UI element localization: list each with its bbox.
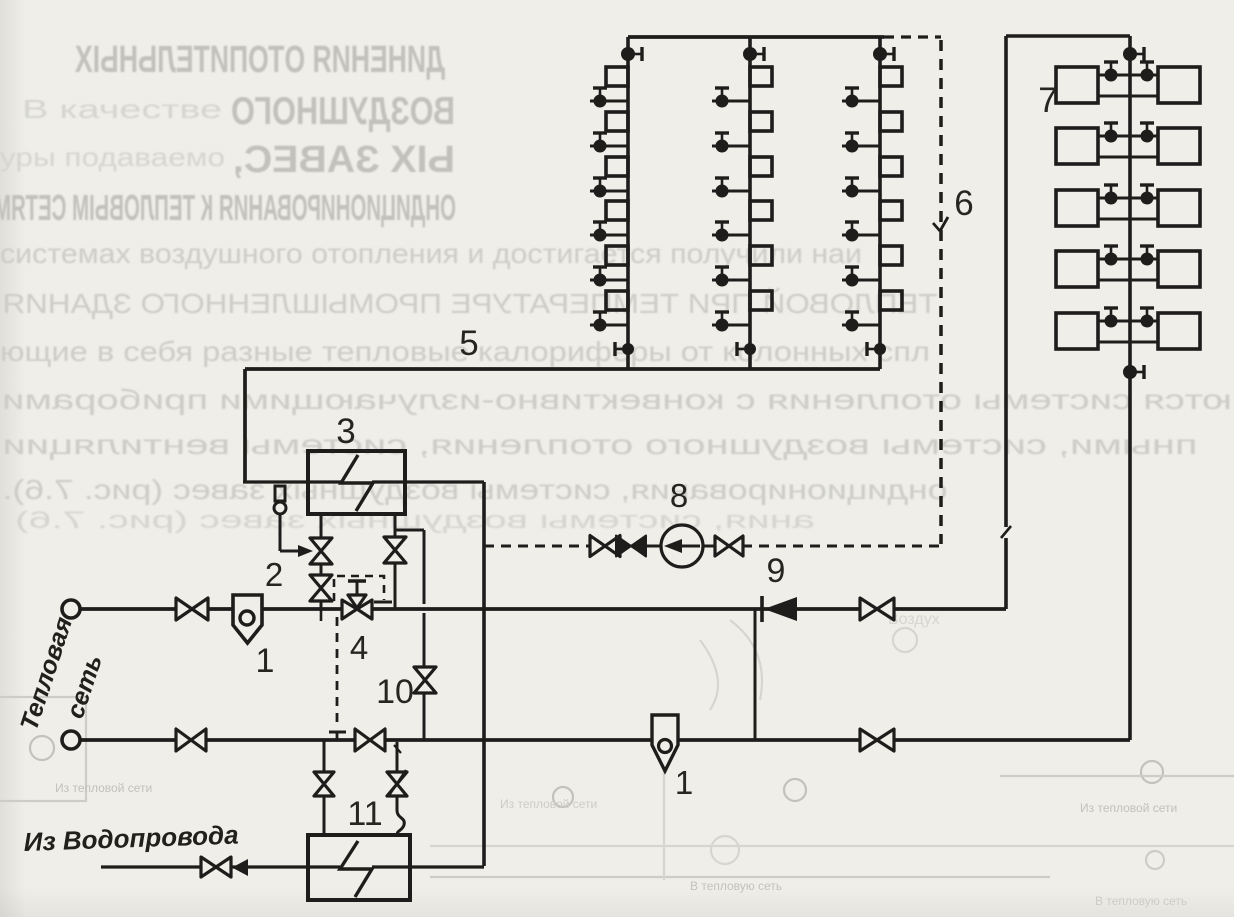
wire: exchanger 3 left tube to valve 2 xyxy=(320,514,323,609)
right conn valve floor5 xyxy=(1140,308,1154,328)
actuator dashed box xyxy=(334,576,392,602)
valve 10 xyxy=(414,667,436,693)
return conn floor5 xyxy=(1098,341,1158,344)
radiator riser2 floor6 xyxy=(750,291,772,310)
supply conn floor5 xyxy=(1098,320,1158,323)
radiator valve riser2 floor3 xyxy=(712,178,750,198)
wire: bypass supply-return xyxy=(754,609,757,740)
label 1 (return filter) xyxy=(675,764,693,801)
label 3 xyxy=(336,412,355,451)
wire: bottom header of left bank xyxy=(245,367,880,371)
radiator left floor3 of bank 7 xyxy=(1056,190,1098,226)
svg-text:ТЕПЛОВОЙ ПРИ ТЕМПЕРАТУРЕ ПРОМЫ: ТЕПЛОВОЙ ПРИ ТЕМПЕРАТУРЕ ПРОМЫШЛЕННОГО З… xyxy=(3,288,938,319)
label 7 xyxy=(1038,81,1057,120)
wire: cold water inlet xyxy=(101,865,340,868)
svg-text:системах воздушного отопления: системах воздушного отопления и достигае… xyxy=(0,238,862,269)
svg-text:3: 3 xyxy=(336,412,355,451)
radiator valve riser2 floor1 xyxy=(712,88,750,108)
radiator right floor4 of bank 7 xyxy=(1158,251,1200,287)
radiator right floor2 of bank 7 xyxy=(1158,128,1200,164)
flow arrow on dashed riser 6 xyxy=(933,217,948,231)
radiator valve riser3 floor2 xyxy=(842,133,880,153)
radiator valve riser3 floor1 xyxy=(842,88,880,108)
svg-text:6: 6 xyxy=(954,184,973,223)
right conn valve floor1 xyxy=(1140,62,1154,82)
svg-text:В тепловую сеть: В тепловую сеть xyxy=(690,879,782,893)
supply conn floor1 xyxy=(1098,74,1158,77)
stub below supply at valve2 line xyxy=(320,609,323,621)
heat exchanger 11 xyxy=(308,835,410,900)
label 2 xyxy=(265,556,283,593)
radiator riser2 floor3 xyxy=(750,157,772,176)
valve below 2 xyxy=(310,575,332,601)
supply conn floor3 xyxy=(1098,197,1158,200)
svg-text:ЫХ ЗАВЕС,: ЫХ ЗАВЕС, xyxy=(233,139,455,181)
wire: exchanger 3 outlet to drop xyxy=(372,480,484,483)
radiator valve riser2 floor4 xyxy=(712,222,750,242)
mud filter 1 (return) xyxy=(652,715,678,771)
valve on left feed xyxy=(314,772,334,796)
radiator riser2 floor5 xyxy=(750,246,772,265)
label 8 xyxy=(670,477,688,514)
left conn valve floor3 xyxy=(1104,185,1118,205)
svg-text:ондиционирования, системы возд: ондиционирования, системы воздушных заве… xyxy=(2,474,947,505)
wire: supply riser to bank 7 xyxy=(1001,36,1011,609)
return conn floor1 xyxy=(1098,95,1158,98)
label 4 xyxy=(350,629,368,666)
svg-text:9: 9 xyxy=(767,552,786,590)
wire: branch to valve 10 xyxy=(395,530,424,740)
riser 1 bottom tap xyxy=(615,342,634,356)
valve 4 actuator xyxy=(348,581,366,595)
svg-text:уры подаваемо: уры подаваемо xyxy=(0,142,225,172)
bleed-through diagram fragments (bottom band) xyxy=(0,620,1234,880)
svg-text:ДИНЕНИЯ ОТОПИТЕЛЬНЫХ: ДИНЕНИЯ ОТОПИТЕЛЬНЫХ xyxy=(75,39,445,81)
check valve 9 xyxy=(762,596,797,622)
dashed impulse line to return xyxy=(329,617,346,740)
wire: dashed pump suction xyxy=(484,545,590,548)
wire: heated water outlet xyxy=(372,865,484,868)
riser 3 of bank 5 xyxy=(878,37,882,369)
wire: exchanger 11 left feed xyxy=(323,740,326,835)
riser 3 top valve xyxy=(873,47,894,61)
radiator valve riser1 floor6 xyxy=(590,312,628,332)
svg-text:11: 11 xyxy=(347,795,382,833)
wire: riser of bank 7 xyxy=(1128,36,1132,740)
label 5 xyxy=(459,324,478,363)
label 1 (supply filter) xyxy=(256,642,275,680)
svg-text:5: 5 xyxy=(459,324,478,363)
radiator valve riser1 floor3 xyxy=(590,178,628,198)
valve after pump xyxy=(703,536,743,556)
wire: dashed header continuation to node 6 xyxy=(884,35,941,38)
valve on return after mixing point xyxy=(355,729,385,751)
bank 7 riser bottom valve xyxy=(1123,365,1144,379)
valve on return before bank 7 xyxy=(860,729,894,751)
wire: return main xyxy=(80,738,1130,742)
radiator valve riser1 floor4 xyxy=(590,222,628,242)
node: heat network supply stub xyxy=(62,600,80,618)
wire: top feed to bank 7 xyxy=(1006,34,1130,38)
mud filter 1 (supply) xyxy=(233,595,262,643)
riser 2 bottom tap xyxy=(737,342,756,356)
radiator riser1 floor2 xyxy=(606,112,628,131)
bleed-through body text lines xyxy=(0,238,1232,534)
bank 7 riser top valve xyxy=(1123,47,1144,61)
radiator riser1 floor6 xyxy=(606,291,628,310)
radiator valve riser1 floor1 xyxy=(590,88,628,108)
radiator riser3 floor2 xyxy=(880,112,902,131)
svg-text:10: 10 xyxy=(376,673,414,711)
valve on supply main xyxy=(176,598,208,620)
left conn valve floor4 xyxy=(1104,246,1118,266)
wire: curved drop into exchanger 11 xyxy=(397,796,404,835)
radiator riser3 floor5 xyxy=(880,246,902,265)
svg-text:8: 8 xyxy=(670,477,688,514)
radiator riser3 floor1 xyxy=(880,67,902,86)
radiator valve riser3 floor3 xyxy=(842,178,880,198)
label Из водопровода xyxy=(23,820,239,857)
left conn valve floor2 xyxy=(1104,123,1118,143)
svg-text:ются системы отопления с конве: ются системы отопления с конвективно-изл… xyxy=(2,384,1232,415)
return conn floor3 xyxy=(1098,218,1158,221)
radiator valve riser3 floor5 xyxy=(842,267,880,287)
svg-text:Из тепловой сети: Из тепловой сети xyxy=(1080,801,1177,815)
riser 2 top valve xyxy=(743,47,764,61)
wire: hot water drop pipe xyxy=(482,482,486,866)
svg-text:1: 1 xyxy=(675,764,693,801)
wire: supply main xyxy=(80,607,1006,611)
valve on supply before bank 7 xyxy=(860,598,894,620)
svg-text:ОНДИЦИОНИРОВАНИЯ К ТЕПЛОВЫМ СЕ: ОНДИЦИОНИРОВАНИЯ К ТЕПЛОВЫМ СЕТЯМ xyxy=(0,187,456,228)
return conn floor2 xyxy=(1098,156,1158,159)
radiator riser2 floor1 xyxy=(750,67,772,86)
radiator valve riser1 floor5 xyxy=(590,267,628,287)
svg-text:В тепловую сеть: В тепловую сеть xyxy=(1095,894,1187,908)
right conn valve floor3 xyxy=(1140,185,1154,205)
radiator riser1 floor1 xyxy=(606,67,628,86)
wire: dashed pump discharge to riser 6 xyxy=(742,545,941,548)
svg-text:ВОЗДУШНОГО: ВОЗДУШНОГО xyxy=(231,90,455,133)
radiator riser3 floor4 xyxy=(880,201,902,220)
radiator valve riser1 floor2 xyxy=(590,133,628,153)
wire: dashed return riser 6 xyxy=(939,40,943,544)
svg-text:Из тепловой сети: Из тепловой сети xyxy=(55,781,152,795)
riser 2 of bank 5 xyxy=(748,37,752,369)
valve on water inlet with flow arrow xyxy=(201,857,248,877)
radiator left floor4 of bank 7 xyxy=(1056,251,1098,287)
label 9 xyxy=(767,552,786,590)
svg-text:Воздух: Воздух xyxy=(888,611,940,628)
bleed-through mirrored heading from reverse page xyxy=(0,39,456,228)
supply conn floor2 xyxy=(1098,135,1158,138)
wire: left drop to heat exchanger 3 xyxy=(243,369,341,482)
heat exchanger 3 xyxy=(308,451,405,514)
radiator right floor5 of bank 7 xyxy=(1158,313,1200,349)
radiator left floor5 of bank 7 xyxy=(1056,313,1098,349)
valve on right tube xyxy=(384,537,406,563)
radiator valve riser2 floor6 xyxy=(712,312,750,332)
right conn valve floor4 xyxy=(1140,246,1154,266)
svg-text:1: 1 xyxy=(256,642,275,680)
svg-text:В качестве: В качестве xyxy=(22,94,222,124)
valve before pump (open) xyxy=(590,536,661,557)
wire: top supply header of left bank xyxy=(628,35,884,39)
riser 3 bottom tap xyxy=(867,342,886,356)
left conn valve floor5 xyxy=(1104,308,1118,328)
svg-text:2: 2 xyxy=(265,556,283,593)
temperature regulator sensor 2 xyxy=(274,486,313,557)
wire: exchanger 3 right tube xyxy=(394,514,397,609)
radiator left floor2 of bank 7 xyxy=(1056,128,1098,164)
pump 8 xyxy=(661,525,703,567)
radiator right floor3 of bank 7 xyxy=(1158,190,1200,226)
radiator right floor1 of bank 7 xyxy=(1158,67,1200,103)
radiator valve riser3 floor6 xyxy=(842,312,880,332)
svg-text:пными, системы воздушного отоп: пными, системы воздушного отопления, сис… xyxy=(3,429,1198,460)
supply conn floor4 xyxy=(1098,258,1158,261)
valve 2 (upper) xyxy=(310,538,332,564)
radiator valve riser2 floor5 xyxy=(712,267,750,287)
wire: exchanger 11 right feed xyxy=(394,742,401,772)
three-way mixing valve 4 xyxy=(342,595,372,619)
node: heat network return stub xyxy=(62,731,80,749)
radiator valve riser3 floor4 xyxy=(842,222,880,242)
radiator riser1 floor4 xyxy=(606,201,628,220)
valve on return main (left) xyxy=(176,729,206,751)
radiator riser3 floor3 xyxy=(880,157,902,176)
svg-text:Из тепловой сети: Из тепловой сети xyxy=(500,797,597,811)
radiator riser3 floor6 xyxy=(880,291,902,310)
radiator riser2 floor2 xyxy=(750,112,772,131)
radiator riser1 floor3 xyxy=(606,157,628,176)
left conn valve floor1 xyxy=(1104,62,1118,82)
radiator riser1 floor5 xyxy=(606,246,628,265)
return conn floor4 xyxy=(1098,279,1158,282)
svg-text:4: 4 xyxy=(350,629,368,666)
radiator riser2 floor4 xyxy=(750,201,772,220)
radiator valve riser2 floor2 xyxy=(712,133,750,153)
label Тепловая сеть xyxy=(15,613,108,734)
radiator left floor1 of bank 7 xyxy=(1056,67,1098,103)
check valve before pump (filled) xyxy=(616,536,646,557)
riser 1 of bank 5 xyxy=(626,37,630,369)
svg-text:7: 7 xyxy=(1038,81,1057,120)
right conn valve floor2 xyxy=(1140,123,1154,143)
label 11 xyxy=(347,795,382,833)
label 6 xyxy=(954,184,973,223)
label 10 xyxy=(376,673,414,711)
drain valve (slashed) xyxy=(387,770,407,797)
riser 1 top valve xyxy=(621,47,642,61)
